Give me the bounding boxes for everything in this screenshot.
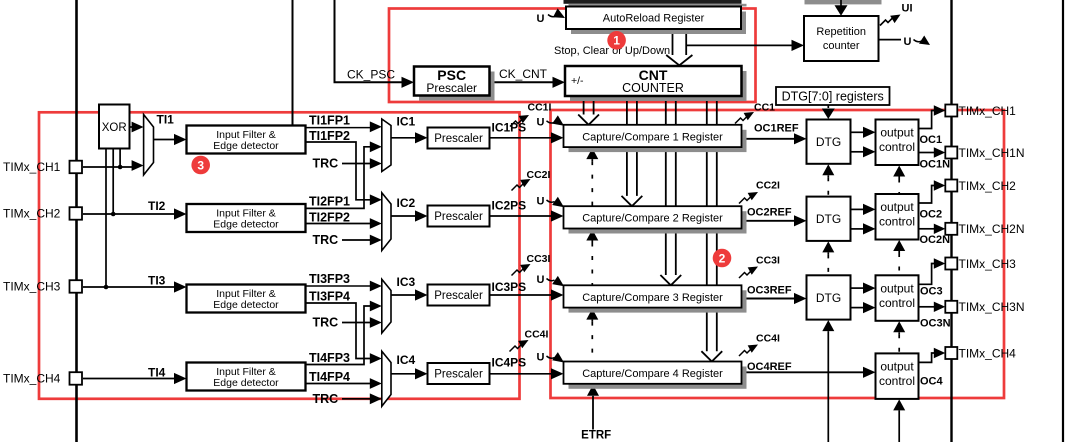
svg-text:UI: UI [902, 3, 913, 15]
mux IC3 input arrowhead 3 [370, 317, 382, 328]
svg-text:Capture/Compare 4 Register: Capture/Compare 4 Register [582, 368, 723, 380]
wire IC2 mux to Prescaler [391, 215, 417, 217]
svg-text:counter: counter [823, 40, 860, 52]
svg-text:Repetition: Repetition [816, 26, 866, 38]
mux IC4 input arrowhead 1 [370, 353, 382, 364]
svg-text:1: 1 [613, 34, 620, 48]
svg-text:U: U [537, 274, 545, 286]
wire OC4REF register to output control [742, 371, 865, 373]
svg-text:TI4: TI4 [148, 366, 166, 380]
wire IC4 mux to Prescaler [391, 373, 417, 375]
register Capture/Compare 1 [569, 130, 747, 152]
wire TI4FP4 [306, 383, 372, 385]
wire OC2 to TIMx_CH2 pin [919, 186, 935, 204]
svg-text:Edge detector: Edge detector [213, 299, 279, 311]
event zigzag CC1I (left) [510, 119, 523, 127]
svg-text:Edge detector: Edge detector [213, 140, 279, 152]
mux IC2 input arrowhead 1 [370, 194, 382, 205]
wire TIMx_CH3 to Input Filter 3 [83, 286, 176, 288]
svg-text:IC2: IC2 [397, 196, 416, 210]
svg-text:IC1: IC1 [397, 115, 416, 129]
wire OC1 to TIMx_CH1 pin [919, 111, 935, 129]
mux IC2 input arrowhead 2 [370, 218, 382, 229]
pin TIMx_CH1 (left) [70, 161, 83, 174]
box output control 1 [876, 120, 919, 166]
svg-text:U: U [537, 116, 545, 128]
svg-text:TI2: TI2 [148, 199, 166, 213]
junction TI2/XOR [111, 212, 116, 217]
svg-text:3: 3 [197, 158, 204, 172]
mux IC1 selector [382, 119, 391, 172]
pin TIMx_CH4 (left) [70, 372, 83, 385]
svg-text:CK_PSC: CK_PSC [347, 68, 395, 82]
event zigzag CC2I (right) [739, 196, 752, 204]
svg-text:2: 2 [719, 251, 726, 265]
svg-text:OC2REF: OC2REF [747, 207, 792, 219]
event zigzag CC4I (right) [739, 348, 752, 356]
svg-text:CC4I: CC4I [756, 333, 780, 345]
box Input Filter & Edge detector 3 [187, 285, 306, 313]
wire XOR input from TI1 line [119, 149, 121, 168]
dashed compare arrow into register 1 [586, 148, 598, 159]
wire OC3N to TIMx_CH3N pin [919, 306, 935, 308]
svg-text:DTG: DTG [816, 135, 841, 149]
svg-text:OC3REF: OC3REF [747, 285, 792, 297]
box DTG1 [807, 120, 851, 164]
box Repetition counter [804, 16, 879, 61]
pin TIMx_CH3 (right) [945, 258, 957, 270]
register Capture/Compare 3 [569, 290, 747, 312]
wire DTG3 to output control 1 [851, 287, 865, 289]
cut-off box bottom edge above AutoReload [564, 0, 742, 4]
svg-text:U: U [537, 196, 545, 208]
svg-text:IC4PS: IC4PS [492, 356, 527, 370]
box Prescaler IC2 [428, 206, 490, 227]
box Input Filter & Edge detector 1 [187, 126, 306, 154]
bus CNT to Capture/Compare 2 Register (double line) [626, 96, 628, 196]
svg-text:TIMx_CH2: TIMx_CH2 [959, 179, 1017, 193]
wire XOR output to mux [130, 126, 133, 128]
svg-text:TRC: TRC [313, 157, 339, 171]
wire IC4PS Prescaler to register [490, 373, 553, 375]
wire CNT update to Repetition counter [686, 44, 792, 46]
svg-text:CC1: CC1 [754, 102, 775, 114]
svg-text:control: control [879, 215, 915, 229]
svg-text:Capture/Compare 3 Register: Capture/Compare 3 Register [582, 292, 723, 304]
svg-text:IC3PS: IC3PS [492, 280, 527, 294]
bus CNT to Capture/Compare 1 Register (double line) [583, 96, 585, 115]
junction TI1/XOR [118, 165, 123, 170]
pin TIMx_CH3 (left) [70, 280, 83, 293]
box DTG[7:0] registers [776, 87, 890, 105]
svg-text:TIMx_CH4: TIMx_CH4 [3, 372, 61, 386]
mux IC3 input arrowhead 2 [370, 301, 382, 312]
mux IC1 input arrowhead 2 [370, 141, 382, 152]
event arrow UI [880, 18, 893, 26]
wire DTG registers to DTG1 [827, 105, 829, 108]
mux IC1 input arrowhead 1 [370, 121, 382, 132]
wire TI1FP1 [306, 127, 372, 129]
svg-text:TI1FP2: TI1FP2 [309, 129, 350, 143]
mux IC2 input arrowhead 3 [370, 235, 382, 246]
dashed compare arrow into register 2 [586, 230, 598, 241]
wire TI2FP1 to IC1 mux [306, 147, 372, 209]
svg-text:Prescaler: Prescaler [434, 290, 483, 302]
svg-text:Capture/Compare 2 Register: Capture/Compare 2 Register [582, 213, 723, 225]
label U event from Repetition [879, 39, 901, 41]
svg-text:OC3: OC3 [920, 286, 943, 298]
svg-text:IC3: IC3 [397, 275, 416, 289]
bus CNT to Capture/Compare 3 Register (double line) [665, 96, 667, 275]
mux IC4 selector [382, 351, 391, 406]
svg-text:TIMx_CH3: TIMx_CH3 [3, 280, 61, 294]
svg-text:TRC: TRC [313, 392, 339, 406]
pin TIMx_CH2 (left) [70, 207, 83, 220]
wire IC1 mux to Prescaler [391, 137, 417, 139]
box output control 4 [876, 353, 919, 399]
wire OC2REF register to DTG [742, 220, 796, 222]
svg-text:TI3FP3: TI3FP3 [309, 272, 350, 286]
wire DTG3 to output control 2 [851, 307, 865, 309]
wire TRC to IC1 mux [342, 163, 371, 165]
svg-text:+/-: +/- [571, 75, 584, 87]
register ARR (AutoReload Register) [571, 12, 746, 35]
svg-text:ETRF: ETRF [581, 430, 611, 442]
wire right pin trunk [950, 0, 952, 442]
svg-text:control: control [879, 374, 915, 388]
annotation circle 2 [713, 249, 732, 268]
bus ARR to CNT (double line) [672, 29, 674, 56]
svg-text:CC2I: CC2I [756, 180, 780, 192]
svg-text:output: output [880, 126, 914, 140]
pin TIMx_CH3N (right) [945, 301, 957, 313]
box DTG2 [807, 197, 851, 241]
pin TIMx_CH4 (right) [945, 347, 957, 359]
wire DTG2 to output control 1 [851, 208, 865, 210]
wire TI3FP4 to IC4 mux [306, 303, 372, 359]
svg-text:TI2FP2: TI2FP2 [309, 210, 350, 224]
wire IC2PS Prescaler to register [490, 215, 553, 217]
box Input Filter & Edge detector 4 [187, 363, 306, 391]
wire TRC to IC3 mux [342, 322, 371, 324]
wire OC1REF register to DTG [742, 138, 796, 140]
event zigzag CC2I (left) [512, 183, 525, 191]
wire into output control 4 from below [893, 399, 905, 410]
box output control 3 [876, 275, 919, 321]
wire TI2FP2 [306, 223, 372, 225]
svg-text:AutoReload Register: AutoReload Register [603, 13, 705, 25]
register Capture/Compare 2 [569, 211, 747, 233]
mux IC2 selector [382, 193, 391, 251]
mux IC3 input arrowhead 1 [370, 281, 382, 292]
svg-text:OC2N: OC2N [920, 234, 951, 246]
wire DTG2 to output control 2 [851, 228, 865, 230]
pin TIMx_CH2N (right) [945, 223, 957, 235]
svg-text:TIMx_CH3N: TIMx_CH3N [959, 300, 1025, 314]
wire IC3PS Prescaler to register [490, 294, 553, 296]
svg-text:Prescaler: Prescaler [434, 211, 483, 223]
event zigzag CC1 (right) [735, 116, 748, 124]
dashed arrow into DTG2 [822, 241, 834, 252]
box Prescaler IC1 [428, 128, 490, 149]
svg-text:TIMx_CH2: TIMx_CH2 [3, 207, 61, 221]
wire top vertical to input filter 1 [292, 0, 294, 126]
bus CNT to Capture/Compare 4 Register (double line) [706, 96, 708, 352]
wire IC3 mux to Prescaler [391, 294, 417, 296]
wire DTG1 to output control 1 [851, 131, 865, 133]
box output control 2 [876, 194, 919, 240]
svg-text:OC1: OC1 [920, 134, 943, 146]
svg-text:CK_CNT: CK_CNT [499, 67, 548, 81]
svg-text:TI4FP3: TI4FP3 [309, 351, 350, 365]
pin TIMx_CH1N (right) [945, 147, 957, 159]
event zigzag CC3I (right) [739, 270, 752, 278]
wire XOR input from TI3 line [105, 149, 107, 288]
svg-text:TIMx_CH2N: TIMx_CH2N [959, 222, 1025, 236]
svg-text:TRC: TRC [313, 316, 339, 330]
wire into Repetition counter top [840, 0, 842, 7]
svg-text:U: U [537, 352, 545, 364]
wire OC1N to TIMx_CH1N pin [919, 152, 935, 154]
svg-text:DTG[7:0] registers: DTG[7:0] registers [782, 90, 884, 104]
svg-text:TRC: TRC [313, 233, 339, 247]
svg-text:DTG: DTG [816, 291, 841, 305]
svg-text:TI1FP1: TI1FP1 [309, 114, 350, 128]
annotation red box 3 (capture input region) [39, 112, 520, 399]
svg-text:U: U [537, 13, 545, 25]
pin TIMx_CH1 (right) [945, 105, 957, 117]
wire OC3REF register to DTG [742, 298, 796, 300]
wire TI4FP3 to IC3 mux [306, 306, 372, 365]
dashed arrow into DTG1 [822, 164, 834, 175]
gate XOR [99, 105, 130, 149]
svg-text:TIMx_CH1N: TIMx_CH1N [959, 146, 1025, 160]
prescaler PSC [419, 72, 495, 101]
svg-text:output: output [880, 200, 914, 214]
svg-text:TI1: TI1 [157, 113, 175, 127]
wire TIMx_CH4 to Input Filter 4 [83, 378, 176, 380]
annotation red box 1 (PSC/CNT region) [389, 9, 756, 103]
wire TIMx_CH1 to XOR-mux [83, 166, 132, 168]
wire TI1FP2 to IC2 mux [306, 142, 372, 200]
svg-text:TI4FP4: TI4FP4 [309, 370, 350, 384]
svg-text:TI2FP1: TI2FP1 [309, 195, 350, 209]
svg-text:COUNTER: COUNTER [622, 81, 684, 95]
dashed arrow into output control 3 [893, 321, 905, 332]
register Capture/Compare 4 [569, 367, 747, 389]
mux IC4 input arrowhead 2 [370, 378, 382, 389]
svg-text:OC4REF: OC4REF [747, 361, 792, 373]
mux IC1 input arrowhead 3 [370, 158, 382, 169]
svg-text:OC4: OC4 [920, 376, 944, 388]
svg-text:OC2: OC2 [920, 209, 943, 221]
wire TIMx_CH2 to Input Filter 2 [83, 213, 176, 215]
wire into DTG3 from below [822, 320, 834, 331]
svg-text:CC4I: CC4I [525, 329, 549, 341]
wire IC1PS Prescaler to register [490, 137, 553, 139]
wire OC4 to TIMx_CH4 pin [919, 353, 935, 362]
box Prescaler IC4 [428, 363, 490, 384]
svg-text:OC1REF: OC1REF [754, 123, 799, 135]
svg-text:TI3FP4: TI3FP4 [309, 290, 350, 304]
svg-text:U: U [904, 36, 912, 48]
svg-text:output: output [880, 359, 914, 373]
box DTG3 [807, 275, 851, 319]
event zigzag CC4I (left) [510, 344, 523, 352]
svg-text:TIMx_CH1: TIMx_CH1 [3, 160, 61, 174]
mux XOR/TI1 selector [144, 115, 154, 176]
wire PSC to CNT (CK_CNT) [490, 81, 555, 83]
svg-text:IC2PS: IC2PS [492, 199, 527, 213]
counter CNT [570, 71, 747, 101]
wire DTG1 to output control 2 [851, 151, 865, 153]
wire CK_PSC input [334, 0, 336, 82]
wire TRC to IC4 mux [342, 398, 371, 400]
svg-text:CC3I: CC3I [527, 253, 551, 265]
svg-text:Prescaler: Prescaler [426, 81, 477, 95]
pin TIMx_CH2 (right) [945, 180, 957, 192]
dashed compare arrow into register 3 [586, 309, 598, 320]
wire far right border [1062, 0, 1064, 442]
wire left pin trunk [75, 0, 78, 442]
event zigzag CC3I (left) [512, 268, 525, 276]
svg-text:control: control [879, 140, 915, 154]
svg-text:TI3: TI3 [148, 274, 166, 288]
junction TI3/XOR [104, 285, 109, 290]
wire TRC to IC2 mux [342, 239, 371, 241]
svg-text:Prescaler: Prescaler [434, 133, 483, 145]
svg-text:Prescaler: Prescaler [434, 369, 483, 381]
svg-text:CC3I: CC3I [756, 255, 780, 267]
svg-text:IC1PS: IC1PS [492, 121, 527, 135]
annotation circle 1 [607, 31, 626, 50]
svg-text:TIMx_CH3: TIMx_CH3 [959, 257, 1017, 271]
cut-off box shadow above Repetition counter [805, 0, 882, 4]
svg-text:TIMx_CH4: TIMx_CH4 [959, 346, 1017, 360]
svg-text:Edge detector: Edge detector [213, 219, 279, 231]
wire OC3 to TIMx_CH3 pin [919, 264, 935, 285]
wire XOR input from TI2 line [112, 149, 114, 215]
wire TI3FP3 [306, 285, 372, 287]
box Prescaler IC3 [428, 285, 490, 306]
svg-text:Edge detector: Edge detector [213, 377, 279, 389]
wire TI1 mux to Input Filter 1 [154, 139, 177, 141]
dashed arrow into output control 2 [893, 240, 905, 251]
wire OC2N to TIMx_CH2N pin [919, 228, 935, 230]
svg-text:output: output [880, 281, 914, 295]
svg-text:OC3N: OC3N [920, 318, 951, 330]
dashed arrow into output control 1 [893, 166, 905, 177]
svg-text:IC4: IC4 [397, 353, 416, 367]
annotation red box 2 (capture/compare + output region) [551, 110, 1005, 398]
svg-text:OC1N: OC1N [920, 159, 951, 171]
svg-text:TIMx_CH1: TIMx_CH1 [959, 104, 1017, 118]
box Input Filter & Edge detector 2 [187, 204, 306, 232]
svg-text:control: control [879, 296, 915, 310]
svg-text:CC1I: CC1I [528, 102, 552, 114]
svg-text:DTG: DTG [816, 212, 841, 226]
annotation circle 3 [191, 156, 210, 175]
svg-text:XOR: XOR [102, 122, 127, 134]
mux IC4 input arrowhead 3 [370, 393, 382, 404]
wire ETRF into register 4 [587, 385, 599, 396]
mux IC3 selector [382, 279, 391, 333]
svg-text:Capture/Compare 1 Register: Capture/Compare 1 Register [582, 131, 723, 143]
